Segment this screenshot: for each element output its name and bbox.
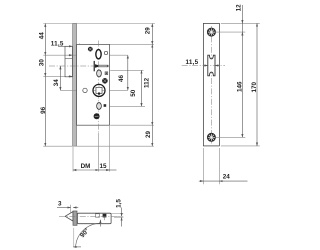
- svg-text:50: 50: [130, 89, 137, 97]
- horizontal centerline cylinder axis: [49, 65, 93, 67]
- screw side view: cone head: [95, 64, 98, 67]
- svg-text:15: 15: [99, 163, 107, 170]
- dim 24 line right tail with arrow: [219, 180, 247, 182]
- dim 12 line upper tail: [241, 5, 243, 23]
- arc end arrow: [99, 220, 101, 227]
- dim 44 line: [44, 24, 46, 56]
- dim 15 line: [99, 169, 110, 171]
- small square with dot: [105, 72, 108, 75]
- dim 50 line: [141, 70, 143, 106]
- latch centerline bottom view: [59, 215, 122, 217]
- ext line plate bottom y=146.2: [43, 145, 154, 147]
- svg-text:29: 29: [145, 131, 152, 139]
- lock case outline: [77, 44, 110, 125]
- dim 1,5 ext lines: [112, 215, 124, 217]
- top screw front: [207, 28, 215, 36]
- latch cutout front (spool): [208, 55, 215, 76]
- svg-text:DM: DM: [81, 163, 91, 170]
- small circle left of follower: [83, 88, 87, 92]
- ext screw bottom axis: [216, 136, 246, 138]
- ext plate bottom left down: [202, 148, 204, 184]
- small notch on body: [96, 214, 100, 217]
- dim 3 line: [57, 207, 71, 209]
- svg-text:146: 146: [237, 81, 244, 92]
- small dark rect on body: [103, 214, 107, 218]
- dim 1,5 line: [121, 208, 123, 217]
- latch body: [77, 213, 111, 224]
- latch head triangle: [65, 212, 73, 221]
- ext plate top right: [221, 22, 260, 24]
- svg-text:96: 96: [40, 106, 47, 114]
- dim DM line: [73, 169, 99, 171]
- ext line latch axis y=55.2: [43, 54, 128, 56]
- svg-text:29: 29: [144, 27, 151, 35]
- latch box inner line: [65, 57, 72, 59]
- dim 11,5 left line: [58, 45, 72, 47]
- svg-text:1,5: 1,5: [116, 199, 123, 208]
- dim 24 line: [203, 180, 219, 182]
- DM/15 ext vertical case back: [109, 126, 111, 172]
- faceplate front outline: [203, 23, 219, 145]
- svg-text:112: 112: [144, 77, 151, 88]
- bottom oval centerline tick: [98, 103, 100, 109]
- faceplate side bar: [73, 24, 77, 147]
- svg-text:46: 46: [118, 75, 125, 83]
- svg-text:24: 24: [223, 173, 231, 180]
- ext plate bottom right down: [218, 148, 220, 184]
- bottom screw: [94, 113, 100, 119]
- dim 46 line: [127, 55, 129, 90]
- screw side view: end cap: [107, 65, 108, 67]
- dim 112 line: [151, 44, 153, 125]
- dim 29 top line: [151, 24, 153, 45]
- top screw: [88, 47, 93, 52]
- vertical centerline of case: [98, 41, 100, 134]
- arrow latch axis at plate: [69, 54, 73, 56]
- arrow y=76.4 at plate: [69, 75, 73, 77]
- dim 146 line: [241, 32, 243, 137]
- follower ring: [93, 84, 105, 96]
- dim 96 line: [44, 76, 46, 146]
- ext line 50 bottom y=106.3: [107, 105, 145, 107]
- svg-text:170: 170: [251, 81, 258, 92]
- svg-text:34: 34: [53, 79, 60, 87]
- bottom screw front: [207, 133, 215, 141]
- follower notch: [98, 93, 100, 95]
- ext body top right: [112, 212, 124, 214]
- screw side view: slot head bar: [94, 61, 95, 71]
- svg-text:3: 3: [58, 201, 62, 208]
- ext line follower axis y=90.3 right: [105, 89, 128, 91]
- faceplate centerline: [210, 26, 212, 144]
- svg-text:11,5: 11,5: [51, 40, 64, 47]
- dim 170 line: [256, 23, 258, 145]
- ext line case top right y=44.4: [110, 43, 154, 45]
- dim 34 line: [59, 66, 61, 90]
- ext plate bottom right: [221, 145, 260, 147]
- middle screw: [102, 78, 108, 84]
- ext line case bottom y=125.2: [110, 124, 154, 126]
- dim 12 middle segment: [241, 23, 243, 32]
- dim 24 line left tail with arrow: [199, 180, 204, 182]
- DM/15 ext vertical axis: [98, 133, 100, 172]
- dim 30 line: [44, 55, 46, 76]
- tick below dark rect: [104, 217, 106, 220]
- oval slot: [97, 70, 102, 77]
- ext line y=76.4: [43, 75, 65, 77]
- ext line plate to arc: [73, 228, 75, 247]
- arc baseline arrow: [73, 246, 81, 248]
- svg-text:12: 12: [235, 4, 242, 12]
- plate cross-section: [73, 211, 77, 225]
- oval slot centerline tick: [98, 70, 100, 76]
- arrow at case front y=44.7: [77, 44, 81, 46]
- follower centerline ticks: [94, 89, 97, 91]
- dim 11,5 right arrows: [204, 65, 208, 67]
- follower square hole: [96, 87, 102, 93]
- DM/15 ext vertical plate front: [72, 147, 74, 172]
- dim 29 bottom line: [151, 125, 153, 146]
- ext screw top axis: [216, 31, 246, 33]
- 90 degree arc: [76, 223, 101, 247]
- latch bolt protruding box: [65, 46, 72, 77]
- dim 3 ext line: [70, 205, 72, 213]
- svg-text:11,5: 11,5: [185, 59, 198, 66]
- ext line plate top y=23.5: [43, 23, 155, 25]
- ext line 50 top y=70.4: [110, 69, 143, 71]
- bottom small dark square: [104, 104, 107, 107]
- screw side view: shaft: [98, 65, 107, 67]
- latch oval: [96, 50, 101, 59]
- svg-text:30: 30: [39, 59, 46, 67]
- bottom oval: [97, 103, 102, 110]
- svg-text:44: 44: [38, 32, 45, 40]
- ext line follower axis y=90.3 left: [60, 89, 83, 91]
- latch horizontal centerline: [182, 65, 225, 67]
- small circle right of latch oval: [104, 51, 107, 54]
